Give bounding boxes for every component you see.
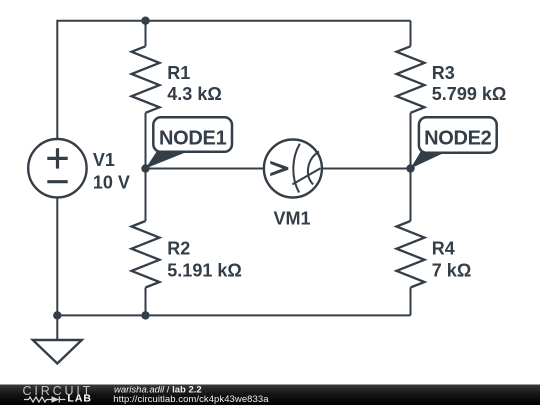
svg-text:R1: R1	[167, 63, 190, 83]
svg-text:R2: R2	[167, 238, 190, 258]
svg-text:http://circuitlab.com/ck4pk43w: http://circuitlab.com/ck4pk43we833a	[113, 394, 269, 405]
svg-text:NODE2: NODE2	[424, 127, 492, 149]
svg-text:5.799 kΩ: 5.799 kΩ	[432, 84, 507, 104]
svg-text:5.191 kΩ: 5.191 kΩ	[167, 260, 242, 280]
svg-text:LAB: LAB	[67, 392, 92, 404]
svg-text:R3: R3	[432, 63, 455, 83]
svg-text:VM1: VM1	[274, 208, 311, 228]
svg-text:NODE1: NODE1	[159, 127, 227, 149]
svg-text:R4: R4	[432, 238, 455, 258]
svg-text:7 kΩ: 7 kΩ	[432, 260, 471, 280]
svg-text:4.3 kΩ: 4.3 kΩ	[167, 84, 221, 104]
svg-text:10 V: 10 V	[93, 173, 130, 193]
svg-text:V1: V1	[93, 150, 115, 170]
